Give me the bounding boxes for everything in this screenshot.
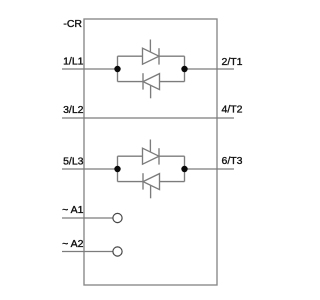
wire 3/L2 to 4/T2 through line [62,117,234,119]
svg-text:-CR: -CR [63,18,82,30]
wire top rail right segment phase L3 [159,155,185,157]
coil terminal circle A1 [113,213,122,222]
svg-text:4/T2: 4/T2 [222,104,243,116]
wire right riser phase L1 [184,56,186,81]
thyristor V1 top (L1->T1) [143,40,160,65]
wire 1/L1 [62,68,118,70]
svg-text:6/T3: 6/T3 [222,155,243,167]
svg-text:2/T1: 2/T1 [222,56,243,68]
node junction T1 right [181,66,187,72]
wire 6/T3 [185,168,235,170]
thyristor V4 bottom (T3->L3) [143,173,160,198]
enclosure box of contactor -CR [84,19,217,285]
wire right riser phase L3 [184,156,186,181]
thyristor V3 top (L3->T3) [143,140,160,165]
svg-text:~ A1: ~ A1 [62,204,83,216]
svg-text:3/L2: 3/L2 [63,104,84,116]
wire bottom rail right segment phase L1 [160,81,185,83]
wire left riser phase L1 [117,56,119,81]
wire bottom rail left segment phase L3 [118,181,144,183]
node junction L3 left [114,166,120,172]
wire bottom rail left segment phase L1 [118,81,144,83]
wire 2/T1 [185,68,235,70]
coil terminal circle A2 [113,247,122,256]
node junction L1 left [114,66,120,72]
wire top rail left segment phase L3 [118,155,143,157]
wire bottom rail right segment phase L3 [160,181,185,183]
wire A2 [62,251,113,253]
svg-text:5/L3: 5/L3 [63,155,84,167]
wire A1 [62,217,113,219]
thyristor V2 bottom (T1->L1) [143,73,160,98]
node junction T3 right [181,166,187,172]
wire top rail right segment phase L1 [159,55,185,57]
wire 5/L3 [62,168,118,170]
svg-text:1/L1: 1/L1 [63,55,84,67]
svg-text:~ A2: ~ A2 [62,238,83,250]
wire top rail left segment phase L1 [118,55,143,57]
wire left riser phase L3 [117,156,119,181]
